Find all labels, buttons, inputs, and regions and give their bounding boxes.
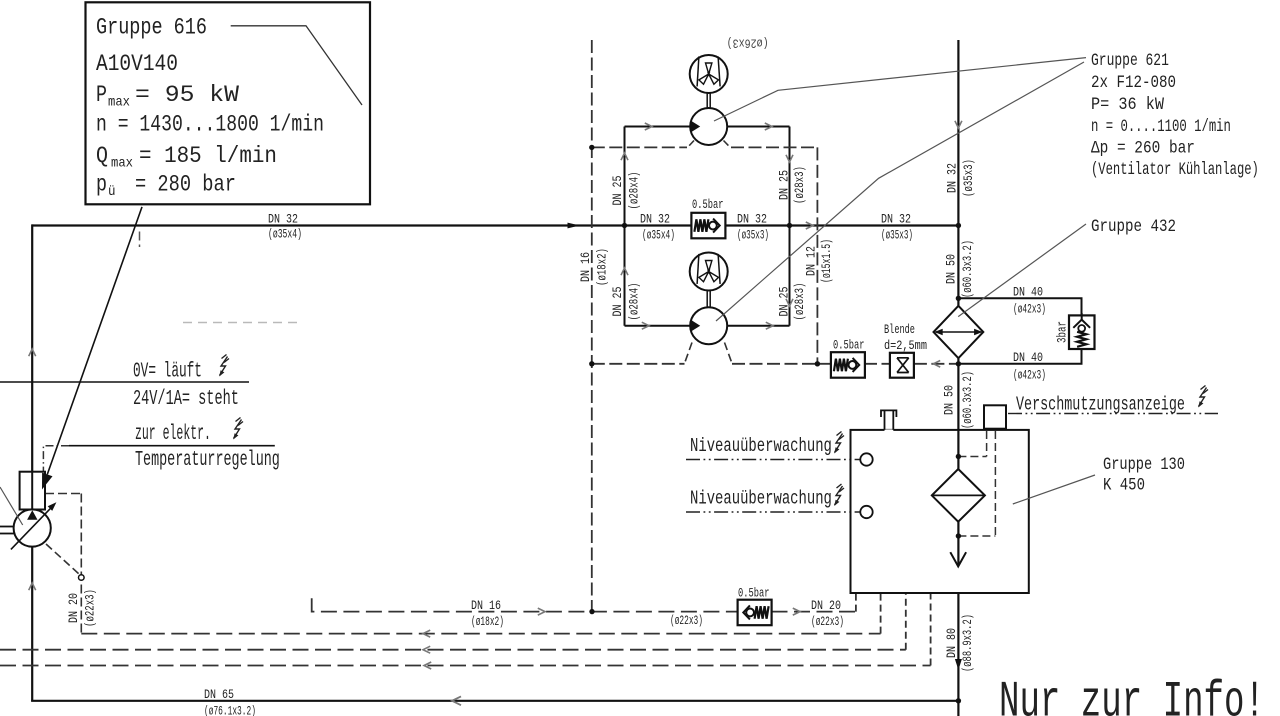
- svg-text:DN 50: DN 50: [942, 385, 957, 415]
- svg-text:DN 25: DN 25: [777, 286, 792, 316]
- wire: filter outlet with arrow: [957, 522, 959, 566]
- fan motor M2: [690, 307, 727, 344]
- callout Gruppe 432 to cooler: [958, 224, 1086, 317]
- callout thin line into pump: [0, 487, 23, 525]
- flow arrow main line open: [806, 222, 813, 229]
- wire: tank stub 1: [855, 593, 857, 612]
- svg-text:K 450: K 450: [1103, 475, 1145, 495]
- svg-text:= 95 kW: = 95 kW: [135, 83, 240, 109]
- node: plugged port circle: [79, 575, 85, 581]
- svg-text:(ø35x3): (ø35x3): [881, 229, 913, 244]
- wire: Niveauueberwachung signal line 2: [686, 511, 861, 513]
- svg-text:DN 32: DN 32: [640, 212, 670, 227]
- wire: sensor dashed connection upstream: [958, 456, 986, 458]
- svg-text:Δp = 260 bar: Δp = 260 bar: [1091, 138, 1195, 158]
- svg-text:24V/1A= steht: 24V/1A= steht: [133, 387, 239, 411]
- svg-text:P: P: [96, 82, 107, 109]
- faded dashed artifact line: [183, 322, 303, 324]
- wire: fan loop rectangle: [625, 126, 790, 128]
- svg-text:(ø26x3): (ø26x3): [727, 35, 769, 48]
- svg-text:DN 50: DN 50: [944, 254, 959, 284]
- svg-text:Gruppe 621: Gruppe 621: [1091, 50, 1169, 71]
- callout Gruppe 621 to motor 1: [714, 58, 1086, 121]
- variable displacement arrow: [11, 506, 53, 549]
- svg-text:p: p: [96, 172, 107, 199]
- flow arrows loop right down: [786, 155, 793, 162]
- flow arrows loop left up: [621, 153, 628, 160]
- svg-text:A10V140: A10V140: [96, 52, 178, 78]
- svg-text:DN 32: DN 32: [881, 212, 911, 227]
- wire: cooler to tank vertical DN50: [957, 358, 959, 430]
- svg-text:(ø22x3): (ø22x3): [84, 589, 98, 627]
- wire: tank stub 2: [880, 593, 882, 634]
- flow arrow main line filled: [568, 223, 580, 229]
- svg-text:DN 20: DN 20: [67, 593, 82, 623]
- svg-text:DN 12: DN 12: [805, 246, 820, 276]
- svg-text:DN 40: DN 40: [1013, 351, 1043, 366]
- info box Gruppe 616: [86, 2, 371, 204]
- callout line from Gruppe 616 box: [231, 26, 362, 105]
- wire: drain line 3: [0, 649, 906, 651]
- svg-text:(ø28x4): (ø28x4): [628, 172, 642, 210]
- svg-text:0.5bar: 0.5bar: [833, 339, 864, 353]
- wire: main DN32 pressure line from pump corner to right vertical: [32, 224, 958, 226]
- shaft 1: [706, 93, 708, 108]
- svg-text:(ø42x3): (ø42x3): [1013, 369, 1046, 384]
- fan 2: [690, 253, 728, 291]
- check valve 0.5bar on main line: [691, 213, 725, 239]
- svg-text:(ø35x3): (ø35x3): [963, 159, 977, 197]
- svg-text:DN 25: DN 25: [611, 286, 626, 316]
- wire: DN16 drain header with stub: [312, 598, 738, 611]
- sensor box Verschmutzungsanzeige: [984, 405, 1006, 428]
- shaft 2: [706, 291, 708, 308]
- flow arrow cooler drain left: [934, 361, 941, 368]
- callout arrow Gruppe 616 to pump: [47, 207, 142, 475]
- svg-text:(ø35x4): (ø35x4): [642, 229, 675, 244]
- svg-text:Gruppe 432: Gruppe 432: [1091, 217, 1176, 237]
- svg-text:(ø18x2): (ø18x2): [471, 615, 504, 630]
- node: DN80 bottom: [956, 698, 961, 703]
- wire: Niveauueberwachung signal line 1: [686, 459, 861, 461]
- svg-text:zur elektr.: zur elektr.: [135, 423, 211, 447]
- node: DN16 bottom drain: [589, 361, 594, 366]
- svg-text:(ø42x3): (ø42x3): [1013, 303, 1046, 318]
- wire: DN50 into tank to filter: [957, 430, 959, 469]
- svg-text:Gruppe 130: Gruppe 130: [1103, 454, 1185, 474]
- wire: DN12 dashed vertical: [816, 147, 818, 363]
- relief valve 3bar: [1069, 315, 1095, 349]
- bolt zur elektr: [233, 418, 243, 440]
- flow arrow DN80 down filled: [955, 659, 962, 670]
- svg-text:2x F12-080: 2x F12-080: [1091, 73, 1176, 93]
- node: main / right vertical: [956, 223, 961, 228]
- svg-text:DN 16: DN 16: [579, 252, 594, 282]
- wire: vertical below left pump down to bottom line: [31, 547, 33, 701]
- wire: left pump suction lines from edge: [0, 526, 14, 528]
- wire: upper pump case drain diagonals: [687, 141, 694, 149]
- wire: lower pump case drain diagonals: [685, 343, 693, 364]
- svg-text:= 185 l/min: = 185 l/min: [139, 143, 277, 169]
- wire: 0V/24V underline: [0, 381, 249, 383]
- svg-text:Gruppe 616: Gruppe 616: [96, 15, 207, 42]
- svg-text:(ø60.3x3.2): (ø60.3x3.2): [962, 371, 976, 429]
- flow arrows loop top: [645, 123, 652, 130]
- wire: DN40 bottom line from relief valve: [958, 349, 1081, 364]
- svg-text:DN 65: DN 65: [204, 688, 234, 703]
- Blende orifice d=2.5mm: [890, 353, 914, 378]
- wire: bottom DN65 return line: [31, 700, 958, 702]
- svg-text:DN 16: DN 16: [471, 599, 501, 614]
- svg-text:n = 1430...1800 1/min: n = 1430...1800 1/min: [96, 113, 324, 139]
- svg-text:(ø35x3): (ø35x3): [737, 229, 769, 244]
- wire: right main vertical DN32/DN50: [957, 40, 959, 306]
- svg-text:DN 25: DN 25: [777, 170, 792, 200]
- wire: DN20 pump leak drain line: [81, 633, 880, 635]
- level switch circle 1: [860, 453, 872, 465]
- node: loop left / main: [622, 223, 627, 228]
- svg-text:DN 80: DN 80: [945, 628, 960, 658]
- flow arrow below pump up: [29, 583, 36, 590]
- flow arrow right vertical down: [955, 121, 962, 128]
- center-line dash below Gruppe 616 box: [139, 232, 141, 248]
- filter diamond K450: [932, 469, 985, 522]
- bolt Verschmutzung: [1198, 386, 1208, 408]
- fan 1: [690, 55, 728, 93]
- regulator box on pump: [20, 472, 45, 510]
- node: DN12 drain: [815, 361, 820, 366]
- svg-text:(ø76.1x3.2): (ø76.1x3.2): [204, 705, 256, 716]
- breather on tank top: [885, 429, 894, 432]
- node: DN16 top: [589, 145, 594, 150]
- cooler diamond Gruppe 432: [934, 306, 984, 358]
- svg-text:(ø60.3x3.2): (ø60.3x3.2): [962, 240, 976, 298]
- flow arrows loop bottom: [642, 322, 649, 329]
- bolt Niveau 1: [834, 432, 844, 454]
- wire: DN40 top line to relief valve: [958, 298, 1081, 315]
- node: cooler bottom: [956, 361, 961, 366]
- svg-text:DN 32: DN 32: [737, 212, 767, 227]
- svg-text:(Ventilator Kühlanlage): (Ventilator Kühlanlage): [1091, 159, 1259, 180]
- tank Gruppe 130: [851, 430, 1029, 593]
- svg-text:0.5bar: 0.5bar: [692, 198, 723, 212]
- svg-text:(ø15x1.5): (ø15x1.5): [820, 239, 834, 283]
- svg-text:Niveauüberwachung: Niveauüberwachung: [690, 488, 832, 510]
- svg-text:0V= läuft: 0V= läuft: [133, 361, 202, 384]
- flow arrow left riser up: [29, 349, 36, 356]
- fan motor M1: [690, 108, 727, 145]
- svg-text:(ø22x3): (ø22x3): [811, 615, 844, 630]
- wire: upper dashed loop horizontal: [592, 146, 687, 148]
- node: loop right / main: [787, 223, 792, 228]
- flow arrows drain header: [538, 608, 545, 615]
- wire: pump control dashed lines: [45, 493, 81, 495]
- variable pump A10V140: [14, 509, 51, 546]
- node: DN16 drain header: [589, 609, 594, 614]
- check valve 0.5bar on DN20 drain (mirrored): [738, 600, 772, 626]
- svg-text:(ø22x3): (ø22x3): [670, 614, 703, 629]
- wire: sensor dashed connection downstream: [958, 535, 995, 537]
- wire: tank stub 4: [930, 593, 932, 666]
- svg-text:d=2,5mm: d=2,5mm: [884, 338, 927, 354]
- svg-text:DN 40: DN 40: [1013, 285, 1043, 300]
- svg-text:Q: Q: [96, 143, 108, 170]
- svg-text:Niveauüberwachung: Niveauüberwachung: [690, 436, 832, 458]
- wire: Verschmutzungsanzeige signal line: [1008, 413, 1218, 415]
- svg-text:max: max: [111, 155, 133, 171]
- svg-text:ü: ü: [108, 184, 115, 200]
- wire: dash-dot line to temperature control: [43, 446, 69, 472]
- svg-text:(ø28x4): (ø28x4): [628, 283, 642, 321]
- svg-text:DN 25: DN 25: [611, 175, 626, 205]
- wire: zur elektr underline: [69, 445, 275, 447]
- check valve 0.5bar on cooler drain: [831, 352, 865, 378]
- bolt Niveau 2: [834, 484, 844, 506]
- svg-text:Blende: Blende: [884, 324, 915, 338]
- svg-text:DN 20: DN 20: [811, 599, 841, 614]
- flow arrow DN65 left: [452, 696, 461, 705]
- svg-text:= 280 bar: = 280 bar: [135, 172, 236, 199]
- bolt 0V laeuft: [219, 355, 229, 377]
- svg-text:P= 36 kW: P= 36 kW: [1091, 94, 1164, 114]
- level switch circle 2: [860, 506, 872, 518]
- node: cooler top: [956, 296, 961, 301]
- svg-text:n = 0....1100 1/min: n = 0....1100 1/min: [1091, 116, 1231, 137]
- wire: lower dashed drain horizontal: [592, 363, 685, 365]
- svg-text:Verschmutzungsanzeige: Verschmutzungsanzeige: [1016, 394, 1185, 416]
- callout Gruppe 130 to tank: [1013, 475, 1095, 504]
- svg-text:DN 32: DN 32: [945, 163, 960, 193]
- svg-text:0.5bar: 0.5bar: [738, 587, 769, 601]
- svg-text:(ø28x3): (ø28x3): [794, 166, 808, 204]
- svg-text:(ø18x2): (ø18x2): [596, 248, 610, 286]
- callout Gruppe 621 to motor 2: [716, 62, 1084, 321]
- svg-text:max: max: [108, 94, 130, 110]
- svg-text:DN 32: DN 32: [268, 212, 298, 227]
- wire: left vertical pump pressure riser: [31, 224, 33, 509]
- svg-text:(ø35x4): (ø35x4): [268, 228, 302, 242]
- wire: DN80 tank outlet down to bottom junction: [957, 593, 959, 716]
- wire: tank stub 3: [905, 593, 907, 650]
- svg-text:3bar: 3bar: [1056, 321, 1070, 343]
- wire: DN16 dashed vertical leak line: [591, 40, 593, 612]
- flow arrows lower drains left: [423, 630, 430, 637]
- svg-text:Nur zur Info!: Nur zur Info!: [999, 674, 1265, 716]
- svg-text:(ø88.9x3.2): (ø88.9x3.2): [962, 614, 976, 672]
- node: filter upstream junction: [956, 454, 961, 459]
- svg-text:Temperaturregelung: Temperaturregelung: [135, 448, 280, 472]
- node: filter downstream junction: [956, 533, 961, 538]
- svg-text:(ø28x3): (ø28x3): [794, 283, 808, 321]
- wire: drain line 4: [0, 665, 931, 667]
